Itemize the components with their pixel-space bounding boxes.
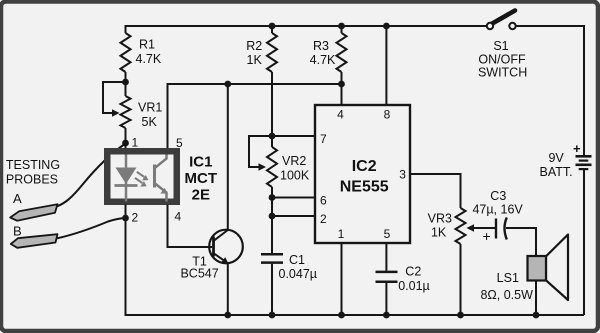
svg-text:2E: 2E: [192, 187, 210, 204]
wire: IC2 pin 3 to VR3: [410, 174, 461, 208]
node: C1 on ground rail: [269, 312, 276, 319]
wire: top supply rail: [126, 26, 488, 27]
svg-text:+: +: [573, 141, 581, 156]
svg-text:100K: 100K: [280, 169, 310, 183]
wire: junction to IC2 pin 7: [272, 135, 315, 137]
svg-text:1: 1: [132, 136, 139, 150]
capacitor C2 0.01u: [385, 243, 387, 271]
node: pin 1 on ground rail: [338, 312, 345, 319]
resistor R2 1K: [271, 26, 273, 33]
svg-text:ON/OFF: ON/OFF: [478, 53, 526, 67]
wire: IC1 pin 5 up to collector rail: [168, 84, 342, 148]
wire: probe A to pin 1: [57, 144, 126, 207]
svg-text:2: 2: [320, 212, 327, 226]
svg-text:5: 5: [176, 136, 183, 150]
wire: pin 1 into IC1: [125, 143, 127, 149]
svg-text:LS1: LS1: [497, 271, 519, 285]
svg-text:VR3: VR3: [428, 212, 452, 226]
svg-text:VR1: VR1: [138, 101, 162, 115]
svg-text:0.047µ: 0.047µ: [279, 267, 317, 281]
svg-text:VR2: VR2: [282, 154, 306, 168]
svg-text:S1: S1: [493, 39, 508, 53]
node: T1 emitter on ground rail: [224, 312, 231, 319]
node: LS1 on ground rail: [533, 312, 540, 319]
wire: supply to IC2 pin 8: [385, 26, 387, 105]
IC1 light arrows: [137, 172, 144, 177]
svg-text:1K: 1K: [247, 53, 263, 67]
svg-text:4: 4: [337, 108, 344, 122]
node: pin 2 junction: [269, 213, 276, 220]
capacitor C3 47u 16V (electrolytic): [495, 219, 497, 239]
svg-text:BATT.: BATT.: [540, 165, 573, 179]
svg-text:4.7K: 4.7K: [136, 52, 162, 66]
transistor T1 BC547: [209, 230, 243, 264]
potentiometer VR2 100K (rheostat wired): [271, 136, 273, 147]
svg-text:9V: 9V: [548, 151, 564, 165]
battery 9V: [576, 155, 592, 158]
svg-text:4: 4: [175, 210, 182, 224]
wire: probe B to pin 2: [57, 218, 126, 238]
node: R3 top on supply rail: [338, 23, 345, 30]
wire: IC1 pin 2 down to ground rail: [126, 205, 585, 316]
node: VR2 top / pin 7 junction: [269, 133, 276, 140]
svg-text:BC547: BC547: [180, 267, 218, 281]
capacitor C1 0.047u: [271, 198, 273, 254]
wire: IC1 pin 4 to T1 base: [168, 205, 213, 248]
node 1: anode of IC1 LED: [122, 140, 129, 147]
svg-text:47µ, 16V: 47µ, 16V: [472, 203, 523, 217]
node: pin 8 top on supply rail: [383, 23, 390, 30]
svg-text:MCT: MCT: [185, 170, 218, 187]
potentiometer VR3 1K: [456, 208, 466, 244]
node: pin 6 junction: [269, 194, 276, 201]
svg-text:1: 1: [338, 227, 345, 241]
svg-text:6: 6: [320, 194, 327, 208]
switch S1: [491, 11, 516, 25]
svg-text:IC1: IC1: [189, 154, 212, 171]
node: VR3 on ground rail: [457, 312, 464, 319]
svg-text:8: 8: [384, 108, 391, 122]
probe A tip: [10, 204, 57, 221]
potentiometer VR1 5K (rheostat wired): [125, 82, 127, 96]
IC1 phototransistor: [153, 165, 156, 188]
svg-text:5: 5: [384, 227, 391, 241]
svg-text:C2: C2: [405, 265, 421, 279]
svg-text:7: 7: [320, 132, 327, 146]
probe B tip: [11, 234, 58, 248]
node: T1 collector junction: [224, 81, 231, 88]
svg-text:2: 2: [132, 211, 139, 225]
wire: IC2 pin 1 to ground rail: [341, 243, 343, 315]
node 2: cathode of IC1 LED: [122, 215, 129, 222]
node: R3 bottom junction: [338, 81, 345, 88]
svg-text:0.01µ: 0.01µ: [398, 279, 430, 293]
svg-text:R2: R2: [246, 39, 262, 53]
node: C2 on ground rail: [383, 312, 390, 319]
svg-text:C3: C3: [490, 189, 506, 203]
wire: junction to IC2 pin 6: [272, 197, 315, 199]
wire: switch to battery: [516, 26, 584, 155]
svg-text:PROBES: PROBES: [6, 173, 58, 187]
svg-text:5K: 5K: [142, 115, 158, 129]
svg-text:SWITCH: SWITCH: [478, 66, 527, 80]
wire: junction to IC2 pin 2: [272, 215, 315, 217]
svg-text:R1: R1: [139, 38, 155, 52]
svg-text:4.7K: 4.7K: [310, 53, 336, 67]
IC2 NE555 body: [315, 105, 410, 243]
loudspeaker LS1: [546, 235, 568, 301]
svg-text:NE555: NE555: [340, 179, 389, 196]
node: R1/VR1 junction: [122, 79, 129, 86]
svg-text:3: 3: [399, 168, 406, 182]
wire: battery to ground rail: [583, 169, 585, 315]
svg-text:+: +: [483, 228, 491, 244]
svg-text:IC2: IC2: [352, 158, 377, 175]
optocoupler IC1 MCT2E body: [107, 151, 177, 202]
svg-text:8Ω, 0.5W: 8Ω, 0.5W: [480, 288, 533, 302]
svg-text:B: B: [13, 224, 22, 239]
svg-text:R3: R3: [313, 39, 329, 53]
resistor R1: [125, 26, 127, 33]
node: R2 top on supply rail: [269, 23, 276, 30]
svg-text:TESTING: TESTING: [6, 158, 60, 172]
IC1 internal LED: [125, 155, 128, 202]
svg-text:A: A: [13, 191, 22, 206]
svg-text:C1: C1: [289, 253, 305, 267]
svg-text:1K: 1K: [431, 226, 447, 240]
resistor R3 4.7K: [341, 26, 343, 33]
